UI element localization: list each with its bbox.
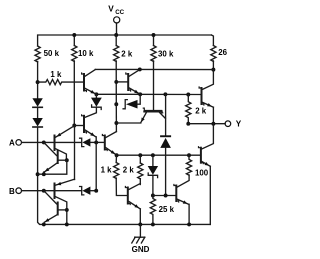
terminal Vcc circle [114, 17, 120, 23]
diode D5 schottky to input stage [123, 94, 140, 109]
svg-text:2 k: 2 k [195, 106, 207, 115]
svg-text:Y: Y [236, 119, 242, 128]
junction splitter wire tap [114, 121, 118, 125]
transistor Q2a [44, 142, 67, 174]
transistor Q9 [125, 184, 140, 225]
diode D2 [32, 118, 42, 127]
junction Q2b emitter ground [42, 222, 46, 226]
junction Q2a collector dot [65, 158, 69, 162]
ground symbol [139, 224, 141, 237]
junction A node [42, 140, 46, 144]
resistor 2k lower [139, 155, 141, 163]
wire Vcc top rail [38, 35, 212, 46]
junction 2k right bottom [186, 122, 190, 126]
transistor Q2b [44, 191, 67, 223]
diode D1 [32, 98, 42, 107]
junction pnp emitter node [72, 124, 76, 128]
wire discharge column A-B [95, 142, 97, 190]
transistor Q4 splitter [141, 108, 165, 122]
svg-text:2 k: 2 k [121, 49, 133, 58]
junction 100 top [187, 153, 191, 157]
junction bias node (1k tap) [36, 80, 40, 84]
svg-text:1 k: 1 k [101, 166, 113, 175]
svg-text:CC: CC [115, 9, 124, 16]
svg-text:1 k: 1 k [50, 70, 62, 79]
svg-text:50 k: 50 k [44, 49, 60, 58]
junction collector node right [211, 68, 215, 72]
terminal B [16, 188, 22, 194]
junction Q3 collector [138, 67, 142, 71]
wire ground stub A cluster [38, 160, 67, 174]
junction 2k right top [186, 93, 190, 97]
junction 10k rail [72, 33, 76, 37]
resistor 1k bias [38, 80, 83, 85]
transistor Q1b pnp input B [55, 179, 75, 224]
transistor Q10 [102, 132, 116, 155]
resistor 2k right [186, 95, 191, 124]
transistor Q6 [199, 124, 214, 225]
junction D6 bottom [164, 194, 168, 198]
svg-text:30 k: 30 k [158, 49, 174, 58]
junction Vcc rail [114, 33, 118, 37]
wire 26 to node [212, 61, 214, 70]
junction Q3 emitter node [138, 92, 142, 96]
svg-text:2 k: 2 k [123, 166, 135, 175]
node Vcc stub [116, 23, 118, 35]
wire 2k lower stub [139, 179, 141, 185]
terminal Y [225, 121, 231, 127]
diode D6 clamp [160, 135, 171, 137]
resistor 2k top [115, 35, 117, 46]
transistor QB schottky [74, 115, 96, 143]
wire 2k column [115, 61, 117, 104]
wire pnp emitter column [74, 126, 76, 180]
svg-text:V: V [108, 4, 114, 13]
resistor 100 [186, 155, 191, 175]
transistor Q7 [174, 175, 189, 224]
svg-text:10 k: 10 k [78, 49, 94, 58]
resistor 30k [153, 35, 155, 46]
junction clamp diode column tap [163, 92, 167, 96]
svg-text:GND: GND [132, 245, 150, 254]
wire 1k lower to Q9 base [116, 178, 127, 196]
wire base bus y94 [96, 93, 200, 95]
junction 2k lower top [138, 153, 142, 157]
wire clamp column x165 [165, 94, 167, 135]
junction 25k top [151, 194, 155, 198]
junction 30k rail [152, 33, 156, 37]
wire 30k column to Q4 base [153, 61, 155, 111]
junction QA emitter node [94, 92, 98, 96]
wire D1-D2 [37, 108, 39, 118]
svg-text:25 k: 25 k [159, 205, 175, 214]
junction A discharge node [94, 140, 98, 144]
transistor Q5 [199, 70, 213, 124]
junction 25k ground [151, 222, 155, 226]
transistor Q3 [116, 70, 140, 95]
wire 10k column [73, 61, 75, 126]
junction Q9 emitter ground [138, 222, 142, 226]
terminal A [16, 140, 22, 146]
wire lower bus y155 [117, 154, 201, 156]
diode D3 schottky QA emitter [95, 94, 97, 97]
junction Q2b collector dot [65, 208, 69, 212]
resistor 10k [73, 35, 75, 46]
wire ground column [38, 128, 211, 225]
diode DB schottky input B [80, 187, 84, 195]
resistor 26 [211, 46, 216, 62]
transistor QA schottky [82, 70, 97, 95]
junction Q10 emitter node [115, 153, 119, 157]
resistor 25k [150, 196, 155, 224]
junction output node [211, 122, 215, 126]
junction Q7 emitter ground [187, 222, 191, 226]
svg-text:26: 26 [218, 48, 227, 57]
resistor 50k [35, 46, 40, 62]
wire B diode to node [90, 190, 96, 192]
junction D7 top [151, 153, 155, 157]
junction Q1b collector ground [65, 222, 69, 226]
wire splitter to Q10 [116, 122, 140, 124]
resistor 1k lower [115, 155, 117, 162]
wire column to Q10 collector [115, 104, 117, 131]
label Vcc [108, 4, 124, 16]
wire input B [22, 190, 82, 192]
wire input A [22, 141, 82, 143]
transistor Q1a pnp input A [55, 126, 75, 160]
wire output Y [188, 123, 225, 125]
svg-text:A: A [9, 139, 15, 148]
diode D7 schottky [152, 155, 154, 166]
wire collector bus y69 [95, 68, 213, 70]
wire A diode to node [90, 141, 104, 143]
diode DA schottky input A [80, 138, 84, 146]
svg-text:100: 100 [195, 168, 209, 177]
junction B discharge node [94, 189, 98, 193]
junction ground stub left [36, 172, 40, 176]
wire 50k to bias node [37, 62, 39, 99]
junction Q3 base tap [114, 80, 118, 84]
junction B node [42, 189, 46, 193]
wire D3 to QB collector [85, 107, 97, 117]
junction diode D5 tap [114, 102, 118, 106]
svg-text:B: B [9, 187, 15, 196]
junction Q2a emitter ground [42, 172, 46, 176]
wire Q7 base [153, 195, 175, 197]
